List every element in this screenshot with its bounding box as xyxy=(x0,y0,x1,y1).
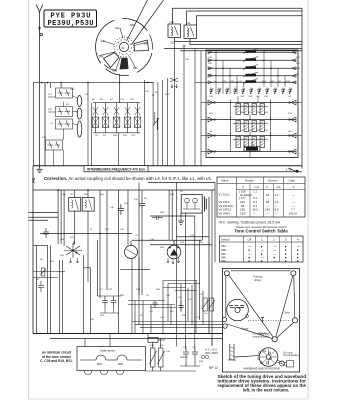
svg-text:C40: C40 xyxy=(208,57,213,59)
svg-text:S4: S4 xyxy=(95,135,98,137)
wire row mid2 xyxy=(150,244,212,246)
svg-text:C15: C15 xyxy=(120,99,125,101)
svg-text:1: 1 xyxy=(261,237,263,241)
coil L14 xyxy=(184,25,197,39)
tuning gang C5-C9 xyxy=(92,103,141,165)
switch section wires S1-S3 xyxy=(208,100,296,154)
svg-text:C32: C32 xyxy=(238,81,243,83)
wire C30 rail xyxy=(97,295,121,297)
svg-text:S5: S5 xyxy=(92,99,95,101)
svg-text:S56: S56 xyxy=(100,194,105,196)
svg-text:L1: L1 xyxy=(90,229,93,231)
svg-text:C30: C30 xyxy=(150,239,155,241)
svg-text:R24: R24 xyxy=(165,94,170,96)
svg-text:C28: C28 xyxy=(84,94,89,96)
svg-text:L40: L40 xyxy=(120,229,124,231)
terminal junction bottom right xyxy=(289,168,299,173)
pulley bottom xyxy=(272,337,277,342)
indicator pulley xyxy=(279,361,284,366)
svg-text:C18: C18 xyxy=(256,112,261,114)
svg-text:(1¾ turns: (1¾ turns xyxy=(283,352,294,355)
pulley top-left xyxy=(224,271,229,276)
svg-text:S4: S4 xyxy=(110,99,113,101)
earth dot at correction xyxy=(33,178,35,180)
svg-text:L31: L31 xyxy=(170,311,174,313)
svg-text:R17: R17 xyxy=(70,237,75,239)
svg-text:Off: Off xyxy=(248,237,252,241)
svg-text:S6C ...: S6C ... xyxy=(221,252,229,256)
svg-text:R1: R1 xyxy=(180,191,184,193)
ground under C40 xyxy=(178,213,184,224)
wire left stub rows xyxy=(29,213,59,221)
svg-text:C7: C7 xyxy=(100,289,104,291)
capacitor C35 xyxy=(178,301,184,312)
ground symbol AE xyxy=(37,166,43,173)
svg-text:S4A: S4A xyxy=(115,27,120,30)
svg-text:L47: L47 xyxy=(209,131,213,133)
waveband channel xyxy=(228,344,260,361)
svg-text:R29: R29 xyxy=(50,261,55,263)
svg-text:—: — xyxy=(275,211,278,215)
svg-text:140.0†: 140.0† xyxy=(289,211,298,215)
svg-text:L23: L23 xyxy=(178,297,182,299)
svg-text:C8: C8 xyxy=(288,96,292,98)
tuning drum xyxy=(227,299,249,321)
svg-text:R34: R34 xyxy=(182,315,187,317)
svg-text:S4C: S4C xyxy=(133,67,138,70)
wire L14 to bus 5 xyxy=(190,39,302,45)
svg-text:S45: S45 xyxy=(264,112,269,114)
svg-text:S42: S42 xyxy=(48,109,53,111)
svg-text:INTERMEDIATE FREQUENCY 470 kc/: INTERMEDIATE FREQUENCY 470 kc/s xyxy=(87,167,145,171)
svg-text:C24: C24 xyxy=(42,137,47,139)
coil block S2 (L5-L8) xyxy=(231,117,271,136)
svg-text:Correction. An aerial coupling: Correction. An aerial coupling coil shou… xyxy=(44,176,212,181)
svg-text:L36: L36 xyxy=(145,91,149,93)
trimmer pair C1 C2 xyxy=(56,88,73,98)
drive cord xyxy=(226,271,295,339)
svg-text:Tone Control Switch Table: Tone Control Switch Table xyxy=(234,229,288,234)
svg-text:S19: S19 xyxy=(256,130,261,132)
svg-text:L46: L46 xyxy=(110,207,114,209)
trimmer C23 xyxy=(153,112,159,130)
wire x209 xyxy=(208,197,210,334)
trimmer pair C25 C26 xyxy=(56,119,73,129)
svg-text:C37: C37 xyxy=(131,135,136,137)
antenna AE xyxy=(36,5,43,167)
coil L24 bottom cluster xyxy=(244,142,260,151)
svg-text:C49: C49 xyxy=(150,345,155,347)
coil rows L15-L19 xyxy=(208,48,296,83)
wafer spokes xyxy=(100,28,148,71)
resistor R22 xyxy=(209,298,216,311)
svg-text:R3: R3 xyxy=(66,104,70,106)
svg-text:L39: L39 xyxy=(264,96,268,98)
svg-text:C14: C14 xyxy=(196,317,201,319)
wire right vertical bus xyxy=(301,8,303,168)
tone table rows xyxy=(221,244,301,263)
svg-text:L59: L59 xyxy=(192,347,196,349)
svg-text:R40: R40 xyxy=(156,289,161,291)
svg-text:R53: R53 xyxy=(84,194,89,196)
svg-text:S15: S15 xyxy=(134,199,139,201)
svg-text:S57: S57 xyxy=(209,113,214,115)
junction dots bus B xyxy=(57,189,59,191)
indicator drum xyxy=(257,348,277,367)
svg-text:R26: R26 xyxy=(262,81,267,83)
coil labels L13 L14 xyxy=(170,21,191,45)
wafer inner dotted ring with contact dots xyxy=(114,37,134,57)
svg-text:C61: C61 xyxy=(170,42,175,45)
svg-text:C36: C36 xyxy=(185,59,190,61)
svg-text:C37: C37 xyxy=(182,46,187,48)
svg-text:S4F: S4F xyxy=(101,40,106,43)
secondary bus xyxy=(50,338,222,340)
wire bus 6 xyxy=(164,48,302,50)
pulley right mid xyxy=(292,318,297,323)
page edge right xyxy=(307,0,309,399)
svg-text:C8: C8 xyxy=(200,294,204,296)
svg-text:L57: L57 xyxy=(70,194,74,196)
valve V2 10F9 xyxy=(64,241,82,263)
svg-text:S31: S31 xyxy=(100,315,105,317)
IF transformer L22 L23 xyxy=(82,198,94,212)
wire wafer drop leads xyxy=(144,78,167,166)
svg-text:mA: mA xyxy=(276,185,282,189)
wire row 236.8 xyxy=(176,236,209,238)
svg-text:200–250V: 200–250V xyxy=(205,351,218,355)
dropper resistor R26 xyxy=(158,348,165,367)
wire V2 cathode rows xyxy=(33,272,65,278)
svg-text:L14: L14 xyxy=(186,22,191,25)
svg-text:L10: L10 xyxy=(204,313,208,315)
svg-text:S23: S23 xyxy=(222,81,227,83)
wire front-end bus xyxy=(33,74,153,166)
svg-text:RP 12: RP 12 xyxy=(209,366,218,370)
svg-text:R43: R43 xyxy=(170,194,175,196)
svg-text:*A.C. working. †Cathode cur: *A.C. working. †Cathode current, 26.5 mA xyxy=(219,221,281,225)
caption text xyxy=(218,374,307,393)
resistor R14 xyxy=(40,268,46,276)
coil block S3 (L9-L12) xyxy=(231,133,271,152)
coil L13 xyxy=(168,24,181,38)
svg-text:MR2: MR2 xyxy=(118,363,124,366)
svg-text:L22: L22 xyxy=(256,96,260,98)
page edge bottom xyxy=(29,398,309,400)
coil L2 xyxy=(77,108,82,119)
svg-text:control spindle): control spindle) xyxy=(253,335,269,338)
svg-text:mA: mA xyxy=(255,185,261,189)
svg-text:●: ● xyxy=(248,259,250,263)
svg-text:L2: L2 xyxy=(214,81,217,83)
svg-text:C59: C59 xyxy=(70,89,75,91)
valve voltage table xyxy=(217,177,305,217)
wire cluster links xyxy=(48,96,77,166)
svg-text:L16: L16 xyxy=(296,63,300,65)
svg-text:Voltages were measured with Av: Voltages were measured with Avometer mod… xyxy=(235,226,287,229)
valve V3 10FD xyxy=(125,241,138,259)
wire bus 7 xyxy=(180,50,302,52)
svg-text:4: 4 xyxy=(297,237,299,241)
svg-text:S59: S59 xyxy=(270,81,275,83)
cursor mark xyxy=(261,318,264,324)
coil L3 xyxy=(77,121,82,137)
svg-text:C4: C4 xyxy=(240,130,244,132)
note identical circuit xyxy=(40,351,73,364)
svg-text:C43: C43 xyxy=(240,96,245,98)
svg-text:PE39U,P53U: PE39U,P53U xyxy=(48,20,94,28)
electrolytic C34 xyxy=(192,348,198,360)
svg-text:C37: C37 xyxy=(108,289,113,291)
page edge left xyxy=(28,0,30,399)
pulley left lower 2 xyxy=(223,324,227,328)
svg-text:R23: R23 xyxy=(199,361,204,363)
svg-text:S6B ...: S6B ... xyxy=(221,248,229,252)
scale lamp box xyxy=(77,347,146,375)
svg-text:R3: R3 xyxy=(103,135,107,137)
svg-text:S4B: S4B xyxy=(144,43,149,46)
svg-text:S57: S57 xyxy=(264,130,269,132)
svg-text:R10: R10 xyxy=(160,212,165,214)
svg-text:2: 2 xyxy=(273,237,275,241)
indicator spindle xyxy=(277,361,293,368)
svg-text:S38: S38 xyxy=(240,112,245,114)
svg-text:250*: 250* xyxy=(240,211,247,215)
svg-text:S10: S10 xyxy=(123,135,128,137)
svg-text:L42: L42 xyxy=(248,130,252,132)
trimmer pair C3 C4 xyxy=(56,107,73,117)
svg-text:C5: C5 xyxy=(146,295,150,297)
svg-text:S30: S30 xyxy=(90,319,95,321)
svg-text:S6A ...: S6A ... xyxy=(221,244,229,248)
IF transformer L20 L21 xyxy=(69,198,81,212)
svg-text:L10: L10 xyxy=(48,94,52,96)
svg-text:2.2: 2.2 xyxy=(275,193,279,197)
svg-text:R19: R19 xyxy=(113,135,118,137)
svg-text:L31: L31 xyxy=(188,299,192,301)
svg-text:L34: L34 xyxy=(183,347,187,349)
trimmer row C10-C21 xyxy=(209,88,292,95)
coil block S1 (L1-L4) xyxy=(231,100,271,119)
svg-text:S23: S23 xyxy=(124,203,129,205)
wire lower bus B xyxy=(33,189,215,191)
title box PYE P93U / PE39U,P53U xyxy=(44,10,97,27)
electrolytic C33 xyxy=(183,348,189,360)
wafer contact dots xyxy=(116,39,132,55)
capacitor C22 xyxy=(118,204,124,215)
wire left verticals xyxy=(33,240,97,334)
capacitor C17 xyxy=(43,228,49,238)
AF section wires xyxy=(120,258,222,334)
main HT bus xyxy=(33,333,222,335)
svg-text:●: ● xyxy=(297,259,299,263)
svg-text:L42: L42 xyxy=(160,345,164,347)
lamp labels xyxy=(97,363,124,366)
svg-text:S36: S36 xyxy=(62,194,67,196)
dashed scale line xyxy=(248,320,291,322)
svg-text:MR1: MR1 xyxy=(97,363,103,366)
svg-text:S4: S4 xyxy=(200,242,203,244)
svg-text:R6: R6 xyxy=(144,198,148,200)
svg-text:L10: L10 xyxy=(288,131,292,133)
svg-text:L13: L13 xyxy=(170,21,175,24)
wire dropper links xyxy=(146,339,197,372)
chassis bus line 2 xyxy=(148,171,302,173)
wire left matrix verticals xyxy=(175,42,201,166)
svg-text:●: ● xyxy=(261,259,263,263)
wafer labels xyxy=(99,24,149,73)
capacitor C31 xyxy=(111,296,117,308)
svg-text:R7: R7 xyxy=(155,92,159,94)
spring xyxy=(258,333,266,335)
svg-text:R6: R6 xyxy=(100,99,104,101)
wire row 216 xyxy=(150,215,195,217)
svg-text:S24: S24 xyxy=(296,57,301,59)
drive diagram box xyxy=(223,269,300,373)
wire lower bus A xyxy=(148,182,215,184)
metal rectifier X2 xyxy=(148,338,165,343)
svg-text:S4: S4 xyxy=(122,48,126,50)
IF frequency label box xyxy=(84,166,148,172)
capacitor C30 xyxy=(102,296,108,308)
svg-text:S5: S5 xyxy=(248,112,251,114)
wire left vertical bus xyxy=(32,166,34,334)
switch unit box S1-S5 xyxy=(206,50,298,158)
wire lower verticals xyxy=(58,183,215,346)
pulley top-right xyxy=(291,271,296,276)
capacitor C52 xyxy=(152,215,163,219)
svg-text:L6: L6 xyxy=(140,315,143,317)
tone control switch table xyxy=(220,236,304,262)
svg-text:Anode: Anode xyxy=(245,178,254,182)
svg-text:R35: R35 xyxy=(120,295,125,297)
svg-text:S19: S19 xyxy=(209,151,214,153)
svg-text:S6: S6 xyxy=(278,81,281,83)
junction dots xyxy=(215,51,286,152)
svg-text:C14: C14 xyxy=(246,81,251,83)
svg-text:C45: C45 xyxy=(166,351,171,353)
svg-text:L9: L9 xyxy=(254,81,257,83)
capacitor C44 xyxy=(139,198,145,215)
AGC knot xyxy=(170,78,178,88)
svg-text:S5F: S5F xyxy=(130,24,135,27)
svg-text:V: V xyxy=(266,185,269,189)
svg-text:Scale lamps: Scale lamps xyxy=(100,349,115,353)
svg-text:1.1: 1.1 xyxy=(253,190,257,194)
svg-text:V1 10C1: V1 10C1 xyxy=(219,193,231,197)
svg-text:R5: R5 xyxy=(40,259,44,261)
svg-text:Switch: Switch xyxy=(221,237,230,241)
svg-text:●: ● xyxy=(285,259,287,263)
valve V4 10P13 xyxy=(167,240,181,264)
wire gang bus xyxy=(88,83,92,166)
svg-text:S10: S10 xyxy=(166,295,171,297)
coil L1 xyxy=(77,96,82,107)
wire row mid xyxy=(132,239,202,241)
svg-text:cord of spindle): cord of spindle) xyxy=(283,354,299,357)
wire top bus 3 xyxy=(197,16,303,25)
capacitor C28 xyxy=(38,281,44,292)
svg-text:3: 3 xyxy=(285,237,287,241)
svg-text:R32: R32 xyxy=(208,63,213,65)
wafer rotor wedge bottom black xyxy=(120,58,129,70)
fuse links xyxy=(180,355,209,366)
svg-text:left, in the next column.: left, in the next column. xyxy=(243,388,289,393)
svg-text:Cursor: Cursor xyxy=(241,328,249,331)
wafer rotor wedge right xyxy=(134,40,149,51)
svg-text:S6E ...: S6E ... xyxy=(221,259,229,263)
wire stubs matrix left xyxy=(195,82,302,151)
matrix internal wires xyxy=(216,52,285,157)
svg-text:S50: S50 xyxy=(208,68,213,70)
wire top bus 1 xyxy=(173,8,303,24)
svg-text:R35: R35 xyxy=(180,357,185,359)
wafer switch S4 outer ring xyxy=(96,18,153,75)
wire bus links xyxy=(85,334,212,351)
svg-text:V5 U404: V5 U404 xyxy=(219,211,231,215)
svg-text:C49: C49 xyxy=(248,96,253,98)
svg-text:R40: R40 xyxy=(230,81,235,83)
svg-text:S26: S26 xyxy=(160,247,165,249)
svg-text:Screen: Screen xyxy=(268,178,278,182)
dropper resistor R25 xyxy=(150,348,157,367)
wire row C18 xyxy=(40,232,132,234)
svg-text:C37: C37 xyxy=(130,99,135,101)
electrolytic block C40 C41 xyxy=(181,195,206,214)
svg-text:—: — xyxy=(292,193,295,197)
svg-text:—: — xyxy=(253,211,256,215)
svg-text:—: — xyxy=(273,259,277,263)
svg-text:R7: R7 xyxy=(150,311,154,313)
wire C30 bottoms xyxy=(104,308,106,313)
svg-text:C31: C31 xyxy=(190,235,195,237)
svg-text:C24: C24 xyxy=(136,289,141,291)
svg-text:S11: S11 xyxy=(288,113,293,115)
svg-text:S27: S27 xyxy=(288,151,293,153)
svg-text:R45: R45 xyxy=(296,68,301,70)
capacitor C46 xyxy=(153,301,158,308)
valve table rows xyxy=(219,190,298,216)
wafer pointer lines xyxy=(127,0,164,45)
svg-text:V: V xyxy=(293,185,296,189)
svg-text:L39: L39 xyxy=(60,255,64,257)
trimmer pair C27 C28 xyxy=(46,140,63,150)
svg-text:WAVEBAND INDICATOR DRIVE: WAVEBAND INDICATOR DRIVE xyxy=(244,368,281,371)
valve table header xyxy=(221,178,296,189)
svg-text:L34: L34 xyxy=(209,96,213,98)
svg-text:C5: C5 xyxy=(50,123,54,125)
svg-text:S4E: S4E xyxy=(99,56,104,59)
tone table header xyxy=(221,237,299,241)
svg-text:Drive: Drive xyxy=(285,312,291,315)
svg-text:L9: L9 xyxy=(135,235,138,237)
drive diagram labels xyxy=(241,275,299,371)
svg-text:Cath.: Cath. xyxy=(289,178,297,182)
component value labels xyxy=(36,46,301,363)
svg-text:L30: L30 xyxy=(208,74,212,76)
pulley left lower 1 xyxy=(222,317,226,321)
chassis bus line xyxy=(33,165,302,167)
svg-text:R29: R29 xyxy=(286,81,291,83)
wafer rotor wedge lower-left xyxy=(104,53,120,68)
wire top bus 2 xyxy=(187,11,303,25)
svg-text:62: 62 xyxy=(266,193,270,197)
svg-text:R8: R8 xyxy=(36,279,40,281)
wire L13 to bus 4 xyxy=(175,38,302,42)
svg-text:V: V xyxy=(242,185,245,189)
svg-text:—: — xyxy=(266,211,269,215)
resistor R20 xyxy=(202,298,209,311)
